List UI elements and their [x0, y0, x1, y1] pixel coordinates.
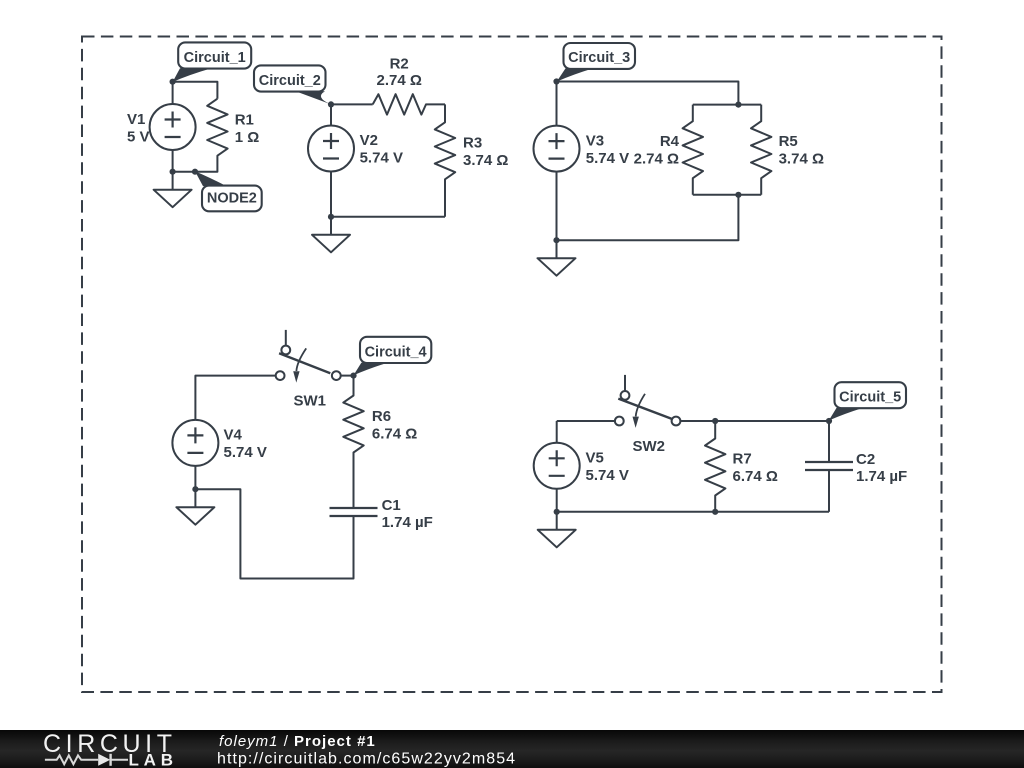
switch SW1 [276, 330, 341, 383]
resistor R2 [373, 94, 445, 114]
node parallel bottom [735, 192, 741, 198]
node bottom (circuit 2) [328, 214, 334, 220]
node V4 bottom [192, 486, 198, 492]
svg-text:R6: R6 [372, 408, 391, 425]
svg-text:Circuit_1: Circuit_1 [184, 50, 246, 66]
voltage source V3 [534, 126, 580, 172]
capacitor C1 [330, 508, 378, 516]
wire C1 bottom loop [195, 489, 353, 578]
wire V3 bottom [556, 171, 558, 240]
wire R7 node to C2 node [715, 420, 829, 422]
svg-text:R1: R1 [235, 112, 254, 129]
svg-text:C2: C2 [856, 451, 875, 468]
voltage source V5 [534, 443, 580, 489]
logo mini schematic (resistor + diode) [45, 754, 128, 766]
svg-text:5.74 V: 5.74 V [586, 150, 629, 167]
svg-text:1.74 µF: 1.74 µF [856, 468, 907, 485]
node label Circuit_3 [557, 43, 635, 82]
node SW1/R6 [350, 373, 356, 379]
CIRCUIT 4 [172, 330, 377, 579]
node parallel top [735, 102, 741, 108]
wire V5 top to switch [557, 420, 615, 422]
svg-text:Circuit_4: Circuit_4 [365, 344, 427, 360]
switch SW2 [615, 375, 681, 428]
ground (circuit 4) [176, 489, 214, 525]
resistor R1 [195, 99, 228, 172]
svg-text:NODE2: NODE2 [207, 190, 257, 206]
ground (circuit 3) [538, 240, 576, 276]
wire bottom rail circuit 2 [331, 216, 445, 218]
svg-text:V5: V5 [586, 449, 604, 466]
wire V5 bottom [556, 488, 558, 511]
schematic border (dashed frame) [82, 37, 942, 693]
wire V4 top to switch [195, 376, 275, 421]
node NODE2 junction left [170, 169, 176, 175]
node top (circuit 2) [328, 101, 334, 107]
svg-text:Circuit_3: Circuit_3 [568, 50, 630, 66]
resistor R7 [705, 421, 725, 512]
svg-text:5.74 V: 5.74 V [360, 150, 403, 167]
CIRCUIT 3 [534, 82, 772, 276]
svg-text:http://circuitlab.com/c65w22yv: http://circuitlab.com/c65w22yv2m854 [217, 751, 516, 768]
wire V5 top [556, 421, 558, 443]
svg-text:1 Ω: 1 Ω [235, 129, 260, 146]
resistor R6 [343, 376, 363, 508]
svg-text:3.74 Ω: 3.74 Ω [463, 152, 508, 169]
svg-text:SW1: SW1 [294, 392, 327, 409]
svg-text:C1: C1 [382, 497, 401, 514]
svg-text:V2: V2 [360, 132, 378, 149]
svg-text:5.74 V: 5.74 V [224, 444, 267, 461]
wire top rail circuit 3 [557, 82, 739, 105]
node label NODE2 [195, 171, 262, 211]
wire switch to node [341, 375, 354, 377]
wire V2 bottom [330, 171, 332, 217]
svg-text:LAB: LAB [129, 750, 178, 768]
ground (circuit 5) [538, 512, 576, 548]
node NODE2 junction right [192, 169, 198, 175]
resistor R4 [683, 105, 703, 195]
resistor R5 [751, 105, 771, 195]
ground (circuit 1) [154, 172, 192, 208]
node label Circuit_5 [829, 382, 906, 420]
wire parallel bottom bar [693, 194, 761, 196]
svg-text:V1: V1 [127, 111, 145, 128]
wire V1 bottom [173, 150, 195, 172]
capacitor C2 [805, 421, 853, 512]
CIRCUIT 5 [534, 375, 853, 547]
svg-text:2.74 Ω: 2.74 Ω [377, 72, 422, 89]
svg-text:5.74 V: 5.74 V [586, 467, 629, 484]
node C2 top [826, 418, 832, 424]
svg-text:SW2: SW2 [633, 438, 666, 455]
svg-text:R7: R7 [733, 451, 752, 468]
svg-text:Circuit_2: Circuit_2 [259, 73, 321, 89]
wire V2 top [330, 104, 332, 126]
CIRCUIT 2 [308, 94, 455, 252]
node V5 bottom [554, 509, 560, 515]
svg-text:3.74 Ω: 3.74 Ω [779, 151, 824, 168]
node R7 top [712, 418, 718, 424]
svg-text:R2: R2 [390, 55, 409, 72]
svg-text:Circuit_5: Circuit_5 [839, 389, 901, 405]
node bottom left (circuit 3) [553, 237, 559, 243]
svg-text:5 V: 5 V [127, 129, 150, 146]
svg-text:R3: R3 [463, 134, 482, 151]
svg-text:6.74 Ω: 6.74 Ω [733, 468, 778, 485]
ground (circuit 2) [312, 217, 350, 253]
node label Circuit_4 [354, 337, 432, 376]
node label Circuit_1 [173, 42, 252, 82]
wire node to R2 [331, 103, 373, 105]
wire V1 top [172, 82, 174, 105]
svg-text:foleym1 / Project #1: foleym1 / Project #1 [219, 733, 376, 750]
node top left (circuit 3) [553, 78, 559, 84]
wire switch to R7 node [680, 420, 715, 422]
svg-text:2.74 Ω: 2.74 Ω [634, 151, 679, 168]
resistor R3 [435, 104, 455, 216]
wire parallel top bar [693, 104, 761, 106]
svg-text:V3: V3 [586, 133, 604, 150]
svg-text:R5: R5 [779, 133, 798, 150]
footer bar [0, 730, 1024, 768]
node label Circuit_2 [254, 65, 331, 104]
wire bottom rail circuit 3 [557, 195, 739, 240]
svg-text:R4: R4 [660, 133, 680, 150]
svg-text:6.74 Ω: 6.74 Ω [372, 426, 417, 443]
voltage source V4 [172, 420, 218, 466]
wire V4 bottom [194, 466, 196, 490]
svg-text:V4: V4 [224, 426, 243, 443]
wire V3 top [556, 82, 558, 127]
node junction (V1/R1 top) [170, 79, 176, 85]
wire bottom rail circuit 5 [557, 511, 829, 513]
voltage source V1 [150, 104, 196, 150]
wire top node to R1 top [173, 82, 218, 99]
svg-text:1.74 µF: 1.74 µF [382, 514, 433, 531]
node R7 bottom [712, 509, 718, 515]
voltage source V2 [308, 126, 354, 172]
